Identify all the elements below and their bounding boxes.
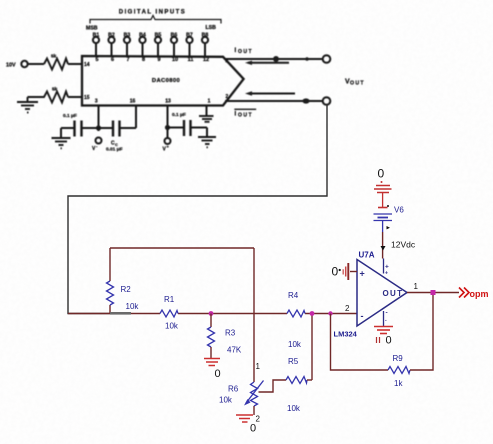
node junction feedback tap [328,311,332,315]
svg-text:DAC0800: DAC0800 [152,78,180,84]
svg-text:+: + [360,269,365,279]
svg-text:LM324: LM324 [334,330,358,339]
svg-text:0: 0 [378,167,385,181]
svg-text:10k: 10k [219,396,233,405]
input B3 pin 7 [124,33,131,64]
capacitor Cc [99,106,137,153]
svg-text:+: + [385,264,389,271]
wire output net [407,292,459,294]
wire V6 to U7A V+ [381,232,416,259]
wire link from IOUT-bar terminal down into op-amp circuit [68,105,327,314]
svg-text:2: 2 [256,415,261,424]
pin 1 label (output) [414,282,419,291]
resistor R4 [287,291,305,349]
svg-text:8: 8 [142,57,145,63]
label DIGITAL INPUTS [119,10,186,16]
svg-text:7: 7 [127,57,130,63]
input B8 pin 12 [202,33,209,64]
svg-text:-: - [386,310,388,317]
svg-text:V6: V6 [394,206,404,215]
wiper wire of R6 to R5 [259,380,287,392]
resistor 5k (pin 15) [28,87,69,103]
wire IOUT (pin 4) [225,58,323,60]
svg-text:10k: 10k [288,340,302,349]
wire R5 up to summing node [311,314,313,381]
pin 1 label [208,99,211,105]
svg-text:R6: R6 [228,385,239,394]
pin 3 label [95,99,98,105]
node 10V terminal [6,61,28,69]
svg-text:0: 0 [215,368,221,380]
resistor R5 [286,357,312,413]
resistor R1 [160,295,179,331]
svg-text:14: 14 [84,62,90,68]
node junction R1/R3/R4 [209,311,214,316]
wire R2 top to pot top [110,247,254,249]
resistor R2 [107,248,140,314]
node V+ junction [165,125,170,130]
label IOUT [235,47,254,55]
svg-text:12Vdc: 12Vdc [391,240,416,250]
label IOUT-bar [235,109,257,119]
svg-text:0: 0 [250,423,256,435]
wire overlap mark [110,312,131,315]
pin 16 label [130,99,136,105]
svg-text:5k: 5k [51,54,57,60]
label MSB [86,26,98,32]
svg-text:15: 15 [84,95,90,101]
svg-text:MSB: MSB [86,26,98,32]
svg-text:3: 3 [95,99,98,105]
pin 13 label [165,99,171,105]
wire R9 to output [410,293,433,371]
ground (V+ bypass) [198,137,216,147]
svg-text:13: 13 [165,99,171,105]
svg-text:R4: R4 [288,291,299,300]
terminal IOUT [323,55,331,63]
label VOUT [345,79,365,87]
svg-text:LSB: LSB [206,25,217,31]
arrow IOUT-bar direction [245,91,295,95]
wire pin 13 down [167,106,169,139]
svg-text:0: 0 [386,335,392,347]
potentiometer R6 [219,381,264,416]
svg-text:I: I [235,47,237,54]
svg-text:1: 1 [414,282,419,291]
svg-text:R9: R9 [393,354,404,363]
svg-text:-: - [361,311,364,321]
svg-text:OUT: OUT [350,81,365,87]
wire inverting input net (main horizontal) [68,313,357,315]
resistor R3 [208,314,242,359]
label U7A [359,251,375,260]
input B1 pin 5 [93,33,100,64]
node junction output/feedback [431,290,436,295]
svg-text:2: 2 [345,304,350,313]
svg-text:1: 1 [208,99,211,105]
wire to pin 14 [68,63,82,65]
svg-text:10: 10 [172,57,178,63]
input B6 pin 10 [171,33,178,64]
wire IOUT-bar (pin 2) [225,100,323,102]
svg-text:R3: R3 [225,329,236,338]
svg-text:0.01 μF: 0.01 μF [106,147,123,153]
wire down to R9 [331,314,389,371]
svg-text:U7A: U7A [359,251,375,260]
svg-text:10k: 10k [165,322,179,331]
input B5 pin 9 [155,33,162,64]
svg-text:R1: R1 [164,295,175,304]
svg-text:0.1 μF: 0.1 μF [172,112,186,118]
label LSB [206,25,217,31]
svg-text:12: 12 [203,57,209,63]
resistor R9 [388,354,410,388]
ground (pin15 resistor) [17,97,38,113]
ground 0 (V- pin) [374,327,393,347]
svg-text:10k: 10k [287,404,301,413]
pin 14 label [84,62,90,68]
svg-text:R2: R2 [121,285,132,294]
ground 0 (R6) [236,415,256,435]
svg-text:+: + [385,271,388,277]
V+ power pin of U7A [384,259,390,277]
svg-text:DIGITAL INPUTS: DIGITAL INPUTS [119,10,186,16]
ground 0 (R3) [204,359,221,381]
wire pin 3 down [98,106,100,132]
svg-text:OUT: OUT [238,113,253,119]
svg-text:OUT: OUT [238,49,253,55]
ground 0 above source V6 [374,167,392,193]
node V- junction [96,125,101,130]
brace over digital inputs [90,16,221,24]
svg-text:9: 9 [158,57,161,63]
wire pin 1 to ground [206,106,208,116]
terminal IOUT-bar [323,97,331,105]
V- power pin of U7A [384,310,388,327]
pin 2 label [226,94,229,100]
input B2 pin 6 [108,33,115,64]
DAC0800 body [82,56,244,106]
ground 0 at non-inverting input [332,263,358,280]
input B4 pin 8 [139,33,146,64]
capacitor 0.1uF (V- bypass) [61,113,99,138]
pin 4 label [226,59,229,65]
svg-text:6: 6 [111,57,114,63]
svg-text:11: 11 [188,57,194,63]
capacitor 0.1uF (V+ bypass) [168,112,208,137]
node junction R4/R5/pin2 [310,311,315,316]
svg-text:5k: 5k [52,87,58,93]
pin 1 label of R6 [256,362,261,371]
svg-text:I: I [235,111,237,118]
wire 10V to resistor [28,63,44,65]
terminal V- [92,138,102,153]
svg-text:1: 1 [256,362,261,371]
pin 15 label [84,95,90,101]
node junction on IOUT-bar wire [302,98,309,103]
arrow IOUT direction [245,61,289,65]
ground (V- bypass) [52,138,71,148]
off-page connector opm [459,288,489,300]
wire R2-top net down to pot (crosses main wire) [253,248,255,382]
resistor 5k (ref input) [44,54,68,70]
terminal V+ [163,138,171,153]
svg-text:10k: 10k [126,302,140,311]
input B7 pin 11 [186,33,193,64]
svg-text:OUT: OUT [383,289,403,298]
svg-text:10V: 10V [6,63,16,69]
op-amp U7A triangle [357,260,407,327]
label LM324 [334,330,358,339]
pin 2 label of R6 [256,415,261,424]
source V6 12Vdc [374,193,405,233]
svg-text:0: 0 [332,265,339,279]
svg-text:47K: 47K [227,346,242,355]
svg-text:C: C [115,143,118,147]
svg-text:2: 2 [226,94,229,100]
wire to pin 15 [68,96,82,98]
svg-text:1k: 1k [394,379,403,388]
pin 2 label (inverting input) [345,304,350,313]
node junction on IOUT wire [273,56,309,62]
svg-text:opm: opm [470,289,489,299]
svg-text:0.1 μF: 0.1 μF [63,113,77,119]
svg-text:16: 16 [130,99,136,105]
ground (pin 1) [199,116,214,122]
svg-text:5: 5 [96,57,99,63]
svg-text:R5: R5 [288,357,299,366]
